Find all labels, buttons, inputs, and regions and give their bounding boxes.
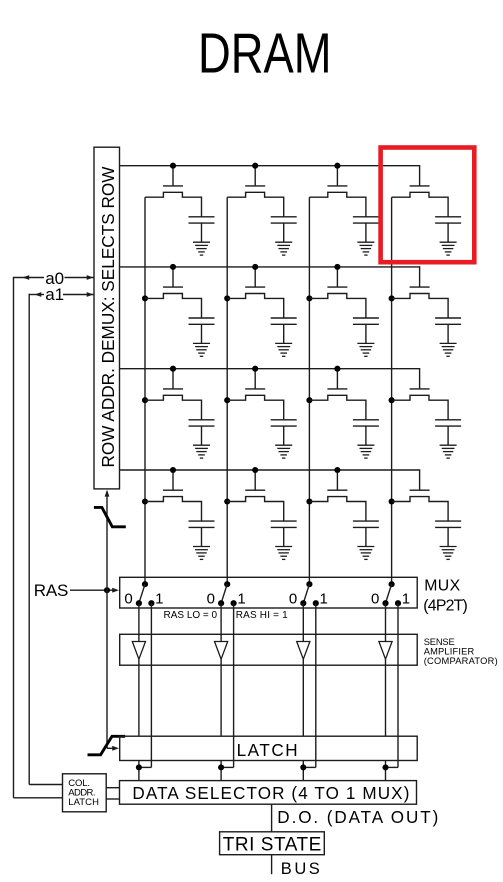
transistor Q2 gate (245, 185, 265, 187)
wire gate stub row 2 col 2 (254, 267, 256, 287)
column address latch U5 box (63, 774, 107, 812)
row address demux U1 box (94, 147, 120, 489)
capacitor C16 (435, 520, 461, 522)
wire 0-path column 2 latch to data selector (220, 761, 222, 781)
svg-text:1: 1 (237, 590, 245, 607)
ground cell 7 (357, 343, 374, 356)
ground cell 11 (357, 445, 374, 458)
wire gate stub row 3 col 3 (336, 369, 338, 389)
ground cell 10 (275, 445, 292, 458)
wire tri state to bus (271, 855, 273, 875)
op-amp A3 sense triangle (297, 642, 310, 660)
svg-text:0: 0 (207, 590, 215, 607)
wire bit line column 3 (308, 197, 310, 584)
wire capacitor C9 to ground (201, 426, 203, 445)
wire 0-path column 3 mux to sense (302, 603, 304, 641)
wire a0 feedback to column address latch (14, 797, 63, 799)
svg-text:a1: a1 (45, 285, 64, 304)
op-amp A1 sense triangle (132, 642, 145, 660)
node bit line junction row 4 col 2 (224, 498, 230, 504)
svg-text:RAS: RAS (34, 581, 69, 600)
svg-text:MUX: MUX (424, 578, 460, 595)
capacitor C5 (189, 317, 215, 319)
wire RAS latch clock horizontal with arrow (107, 747, 114, 749)
node bit line junction row 3 col 4 (389, 397, 395, 403)
transistor Q9 channel (145, 395, 202, 420)
wire a0 to demux with arrow (65, 277, 94, 279)
svg-text:ROW ADDR. DEMUX: SELECTS ROW: ROW ADDR. DEMUX: SELECTS ROW (98, 166, 118, 468)
wire word line row 4 elbow to column 4 gate (419, 469, 421, 490)
wire 1-path column 4 (397, 603, 399, 767)
node word line row 3 col 3 junction (334, 366, 340, 372)
switch SW2 contact 1 (231, 600, 237, 606)
wire gate stub row 2 col 1 (172, 267, 174, 287)
node word line row 3 col 1 junction (170, 366, 176, 372)
wire RAS to mux with arrow (70, 589, 114, 591)
wire 1-path column 3 merge (303, 766, 316, 768)
svg-text:D.O. (DATA OUT): D.O. (DATA OUT) (277, 808, 438, 827)
transistor Q15 channel (309, 497, 366, 521)
wire 1-path column 3 (315, 603, 317, 767)
ground cell 1 (193, 242, 210, 255)
wire 1-path column 1 (150, 603, 152, 767)
capacitor C10 (271, 419, 297, 421)
switch SW4 common node (389, 581, 395, 587)
wire word line row 2 elbow to column 4 gate (419, 266, 421, 287)
transistor Q5 gate (163, 286, 183, 288)
wire column address latch output 2 (106, 798, 120, 800)
wire 0-path column 1 sense to latch (138, 659, 140, 736)
svg-text:0: 0 (124, 590, 132, 607)
wire 1-path column 4 merge (386, 766, 399, 768)
node bit line junction row 4 col 1 (142, 498, 148, 504)
tri state U7 box (220, 832, 325, 855)
switch SW2 wiper (221, 584, 227, 603)
switch SW2 contact 0 (218, 600, 224, 606)
node word line row 2 col 2 junction (252, 264, 258, 270)
wire column address latch output 1 (106, 787, 120, 789)
switch SW4 contact 1 (395, 600, 401, 606)
transistor Q3 channel (309, 192, 366, 217)
wire RAS up to demux (106, 492, 108, 591)
transistor Q11 channel (309, 395, 366, 420)
wire word line row 3 elbow to column 4 gate (419, 368, 421, 389)
switch SW3 wiper (303, 584, 309, 603)
ground cell 6 (275, 343, 292, 356)
wire bit line column 1 (144, 197, 146, 584)
wire capacitor C1 to ground (201, 223, 203, 242)
wire capacitor C15 to ground (365, 527, 367, 546)
transistor Q5 channel (145, 294, 202, 319)
wire gate stub row 1 col 2 (254, 166, 256, 186)
node word line row 1 col 1 junction (170, 163, 176, 169)
highlight rectangle around cell 4 (381, 148, 475, 263)
svg-text:TRI STATE: TRI STATE (223, 835, 321, 856)
node bit line junction row 4 col 3 (306, 498, 312, 504)
node bit line junction row 2 col 1 (142, 295, 148, 301)
wire a1 to demux with arrow (63, 294, 94, 296)
wire bit line column 2 (226, 197, 228, 584)
ground cell 13 (193, 547, 210, 560)
capacitor C2 (271, 216, 297, 218)
wire capacitor C4 to ground (447, 223, 449, 242)
wire gate stub row 1 col 3 (336, 166, 338, 186)
wire 0-path column 1 latch to data selector (138, 761, 140, 781)
node bit line junction row 3 col 2 (224, 397, 230, 403)
wire a0 left with arrow (14, 277, 45, 279)
wire capacitor C10 to ground (283, 426, 285, 445)
svg-text:RAS LO = 0: RAS LO = 0 (164, 610, 218, 621)
node bit line junction row 2 col 4 (389, 295, 395, 301)
capacitor C14 (271, 520, 297, 522)
transistor Q12 gate (410, 388, 430, 390)
sense amplifier U3 box (120, 634, 418, 665)
mux U2 box (120, 577, 418, 608)
svg-text:LATCH: LATCH (237, 741, 298, 760)
switch SW2 common node (224, 581, 230, 587)
switch SW1 contact 1 (148, 600, 154, 606)
wire capacitor C2 to ground (283, 223, 285, 242)
wire capacitor C11 to ground (365, 426, 367, 445)
capacitor C12 (435, 419, 461, 421)
transistor Q13 gate (163, 489, 183, 491)
transistor Q15 gate (327, 489, 347, 491)
node word line row 1 col 3 junction (334, 163, 340, 169)
capacitor C15 (353, 520, 379, 522)
wire gate stub row 3 col 2 (254, 369, 256, 389)
switch SW1 common node (142, 581, 148, 587)
wire 0-path column 4 mux to sense (385, 603, 387, 641)
wire capacitor C13 to ground (201, 527, 203, 546)
wire 1-path column 1 merge (139, 766, 152, 768)
ground cell 15 (357, 547, 374, 560)
wire RAS down to latch clock (106, 590, 108, 748)
ground cell 12 (440, 445, 457, 458)
transistor Q14 gate (245, 489, 265, 491)
node word line row 2 col 3 junction (334, 264, 340, 270)
switch SW3 common node (306, 581, 312, 587)
wire capacitor C6 to ground (283, 324, 285, 343)
switch SW3 contact 0 (300, 600, 306, 606)
capacitor C9 (189, 419, 215, 421)
node word line row 4 col 1 junction (170, 467, 176, 473)
transistor Q14 channel (227, 497, 284, 521)
svg-text:0: 0 (371, 590, 379, 607)
node merge junction column 1 (136, 764, 142, 770)
wire capacitor C14 to ground (283, 527, 285, 546)
capacitor C11 (353, 419, 379, 421)
ground cell 3 (357, 242, 374, 255)
node merge junction column 2 (218, 764, 224, 770)
capacitor C6 (271, 317, 297, 319)
transistor Q9 gate (163, 388, 183, 390)
wire 0-path column 4 latch to data selector (385, 761, 387, 781)
wire 0-path column 3 latch to data selector (302, 761, 304, 781)
ground cell 2 (275, 242, 292, 255)
node word line row 1 col 2 junction (252, 163, 258, 169)
transistor Q12 channel (392, 395, 449, 420)
transistor Q2 channel (227, 192, 284, 217)
capacitor C13 (189, 520, 215, 522)
wire gate stub row 2 col 3 (336, 267, 338, 287)
wire a1 feedback to column address latch (29, 784, 62, 786)
wire 0-path column 1 mux to sense (138, 603, 140, 641)
transistor Q7 gate (327, 286, 347, 288)
capacitor C7 (353, 317, 379, 319)
node word line row 3 col 2 junction (252, 366, 258, 372)
node bit line junction row 3 col 3 (306, 397, 312, 403)
ground cell 8 (440, 343, 457, 356)
falling edge symbol on RAS to demux (94, 507, 126, 526)
svg-text:0: 0 (289, 590, 297, 607)
transistor Q16 channel (392, 497, 449, 521)
wire gate stub row 4 col 1 (172, 470, 174, 490)
wire 1-path column 2 (233, 603, 235, 767)
ground cell 16 (440, 547, 457, 560)
svg-text:1: 1 (402, 590, 410, 607)
ground cell 5 (193, 343, 210, 356)
ground cell 4 (440, 242, 457, 255)
arrow into demux bottom (105, 490, 110, 497)
wire capacitor C3 to ground (365, 223, 367, 242)
wire gate stub row 1 col 1 (172, 166, 174, 186)
transistor Q16 gate (410, 489, 430, 491)
svg-text:LATCH: LATCH (68, 797, 99, 808)
wire capacitor C5 to ground (201, 324, 203, 343)
wire word line row 3 (120, 368, 420, 370)
wire 1-path column 2 merge (221, 766, 234, 768)
node RAS junction (104, 587, 110, 593)
transistor Q10 gate (245, 388, 265, 390)
transistor Q10 channel (227, 395, 284, 420)
wire 0-path column 2 sense to latch (220, 659, 222, 736)
wire 0-path column 4 sense to latch (385, 659, 387, 736)
svg-text:(4P2T): (4P2T) (423, 598, 468, 615)
wire gate stub row 4 col 3 (336, 470, 338, 490)
transistor Q3 gate (327, 185, 347, 187)
transistor Q6 gate (245, 286, 265, 288)
svg-text:BUS: BUS (281, 860, 320, 878)
wire capacitor C7 to ground (365, 324, 367, 343)
capacitor C8 (435, 317, 461, 319)
latch U4 box (120, 736, 418, 760)
capacitor C1 (189, 216, 215, 218)
node merge junction column 3 (300, 764, 306, 770)
wire word line row 1 (120, 165, 420, 167)
transistor Q4 gate (410, 185, 430, 187)
op-amp A2 sense triangle (215, 642, 228, 660)
wire a1 feedback vertical (28, 294, 30, 785)
wire a0 feedback vertical (13, 277, 15, 798)
wire gate stub row 4 col 2 (254, 470, 256, 490)
capacitor C4 (435, 216, 461, 218)
node bit line junction row 3 col 1 (142, 397, 148, 403)
switch SW1 wiper (139, 584, 145, 603)
transistor Q13 channel (145, 497, 202, 521)
transistor Q1 gate (163, 185, 183, 187)
ground cell 14 (275, 547, 292, 560)
wire 0-path column 3 sense to latch (302, 659, 304, 736)
node word line row 4 col 2 junction (252, 467, 258, 473)
wire data out (271, 804, 273, 832)
transistor Q8 channel (392, 294, 449, 319)
wire word line row 2 (120, 266, 420, 268)
wire bit line column 4 (391, 197, 393, 584)
transistor Q7 channel (309, 294, 366, 319)
capacitor C3 (353, 216, 379, 218)
node bit line junction row 2 col 3 (306, 295, 312, 301)
wire gate stub row 3 col 1 (172, 369, 174, 389)
svg-text:1: 1 (155, 590, 163, 607)
wire 0-path column 2 mux to sense (220, 603, 222, 641)
wire word line row 4 (120, 469, 420, 471)
wire capacitor C8 to ground (447, 324, 449, 343)
node merge junction column 4 (382, 764, 388, 770)
transistor Q4 channel (392, 192, 449, 217)
node bit line junction row 4 col 4 (389, 498, 395, 504)
data selector U6 box (120, 781, 417, 805)
svg-text:1: 1 (320, 590, 328, 607)
transistor Q8 gate (410, 286, 430, 288)
transistor Q11 gate (327, 388, 347, 390)
transistor Q6 channel (227, 294, 284, 319)
switch SW4 wiper (386, 584, 392, 603)
svg-text:DATA SELECTOR (4 TO 1 MUX): DATA SELECTOR (4 TO 1 MUX) (132, 784, 409, 803)
op-amp A4 sense triangle (379, 642, 392, 660)
node word line row 4 col 3 junction (334, 467, 340, 473)
ground cell 9 (193, 445, 210, 458)
svg-text:RAS HI = 1: RAS HI = 1 (236, 610, 288, 621)
svg-text:DRAM: DRAM (198, 22, 332, 86)
transistor Q1 channel (145, 192, 202, 217)
node word line row 2 col 1 junction (170, 264, 176, 270)
wire capacitor C12 to ground (447, 426, 449, 445)
svg-text:(COMPARATOR): (COMPARATOR) (424, 656, 498, 666)
wire word line row 1 elbow to column 4 gate (419, 165, 421, 186)
node bit line junction row 2 col 2 (224, 295, 230, 301)
wire a1 left with arrow (29, 294, 44, 296)
rising edge symbol on latch clock (88, 736, 126, 755)
switch SW3 contact 1 (313, 600, 319, 606)
wire capacitor C16 to ground (447, 527, 449, 546)
switch SW1 contact 0 (136, 600, 142, 606)
switch SW4 contact 0 (382, 600, 388, 606)
